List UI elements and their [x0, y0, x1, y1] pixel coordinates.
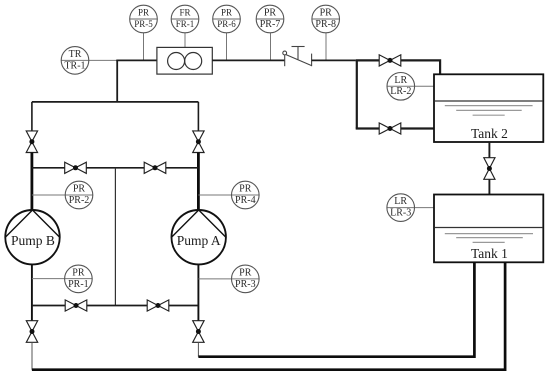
switch S1 (flow switch contact)	[283, 47, 312, 67]
svg-text:LR: LR	[394, 75, 407, 86]
wire: instrument stem PR-8	[325, 33, 327, 60]
valve V7 (pump B discharge valve)	[26, 321, 37, 343]
pump A	[172, 210, 226, 264]
valve V2 (pump A suction valve)	[193, 131, 204, 153]
instrument LR-2	[387, 73, 415, 101]
valve V5 (lower bypass left)	[65, 300, 87, 311]
valve V9 (tank2 top inlet valve)	[379, 55, 401, 66]
flow element FE (oval gear meter)	[157, 47, 212, 74]
instrument PR-8	[312, 5, 340, 33]
wire: pump A discharge drop	[197, 342, 199, 356]
svg-text:PR-5: PR-5	[134, 19, 153, 29]
svg-text:PR: PR	[221, 8, 232, 18]
svg-text:TR: TR	[69, 49, 82, 60]
wire: lower branch to tank2 side	[356, 127, 434, 129]
svg-text:LR: LR	[394, 196, 407, 207]
wire: branch pipe to tank2 top	[356, 60, 440, 74]
svg-text:LR-2: LR-2	[390, 86, 411, 97]
svg-text:PR: PR	[239, 184, 252, 195]
svg-text:Tank 1: Tank 1	[471, 246, 508, 261]
svg-text:Pump B: Pump B	[11, 233, 55, 248]
svg-text:Pump A: Pump A	[177, 233, 221, 248]
wire: pump B return line to tank1 (heavy)	[32, 262, 505, 369]
wire: pump A suction upper	[197, 102, 199, 131]
svg-text:PR: PR	[239, 267, 252, 278]
svg-text:FR-1: FR-1	[176, 19, 195, 29]
wire: main pipe flow element to switch	[212, 59, 284, 61]
valve V10 (tank2 side valve)	[379, 123, 401, 134]
instrument FR-1	[171, 5, 199, 33]
valve V8 (pump A discharge valve)	[193, 321, 204, 343]
tank 1	[434, 195, 543, 263]
instrument LR-3	[387, 194, 415, 222]
wire: LR-2 connection to tank2	[387, 85, 434, 87]
instrument PR-6	[213, 5, 241, 33]
valve V6 (lower bypass right)	[147, 300, 169, 311]
wire: PR-3 connection	[198, 278, 259, 280]
svg-text:PR: PR	[72, 267, 85, 278]
wire: TR-1 connection to main pipe	[61, 59, 117, 61]
svg-text:Tank 2: Tank 2	[471, 126, 508, 141]
instrument TR-1	[61, 47, 89, 75]
valve V3 (upper bypass left)	[65, 162, 87, 173]
wire: upper bypass line	[32, 167, 199, 169]
instrument PR-1	[65, 265, 93, 293]
wire: main pipe switch to tank2 top inlet	[312, 59, 356, 61]
wire: header drop from main pipe	[32, 60, 199, 102]
tank 2	[434, 74, 543, 142]
wire: pump B suction upper	[31, 102, 33, 131]
instrument PR-3	[232, 265, 260, 293]
wire: lower bypass line	[32, 305, 199, 307]
svg-text:PR-1: PR-1	[68, 279, 89, 290]
wire: PR-2 connection	[32, 194, 93, 196]
svg-text:PR-2: PR-2	[69, 195, 90, 206]
wire: PR-1 connection	[32, 278, 92, 280]
svg-text:PR-7: PR-7	[260, 19, 281, 30]
svg-text:PR: PR	[320, 8, 333, 19]
svg-text:PR-8: PR-8	[315, 19, 336, 30]
instrument PR-5	[130, 5, 158, 33]
pump B	[5, 210, 59, 264]
wire: LR-3 connection to tank1	[387, 207, 434, 209]
wire: pump A suction lower (heavy)	[197, 153, 200, 212]
wire: middle crossover line	[114, 168, 116, 306]
wire: pump B discharge	[31, 264, 33, 320]
wire: pump A discharge	[197, 264, 199, 320]
svg-text:PR: PR	[73, 184, 86, 195]
svg-text:PR: PR	[138, 8, 149, 18]
valve V4 (upper bypass right)	[144, 162, 166, 173]
valve V11 (tank2 to tank1 valve)	[484, 158, 495, 180]
wire: instrument stem FR-1	[184, 33, 186, 48]
wire: pump A return line to tank1 (heavy)	[198, 262, 474, 356]
svg-text:PR-3: PR-3	[235, 279, 256, 290]
svg-text:PR-4: PR-4	[235, 195, 256, 206]
wire: instrument stem PR-6	[226, 33, 228, 60]
node: branch junction	[356, 60, 358, 128]
valve V1 (pump B suction valve)	[26, 131, 37, 153]
svg-text:PR-6: PR-6	[217, 19, 236, 29]
wire: pump B discharge drop	[31, 342, 33, 369]
svg-text:LR-3: LR-3	[390, 208, 411, 219]
wire: main pipe TR junction to flow element	[116, 59, 157, 61]
svg-text:FR: FR	[179, 8, 190, 18]
svg-text:TR-1: TR-1	[64, 60, 85, 71]
instrument PR-7	[256, 5, 284, 33]
wire: tank2 outlet to tank1	[488, 142, 490, 195]
wire: PR-4 connection	[198, 194, 259, 196]
wire: pump B suction lower (heavy)	[30, 153, 33, 212]
wire: instrument stem PR-5	[143, 33, 145, 60]
wire: instrument stem PR-7	[270, 33, 272, 60]
instrument PR-2	[65, 181, 93, 209]
instrument PR-4	[232, 181, 260, 209]
svg-text:PR: PR	[264, 8, 277, 19]
